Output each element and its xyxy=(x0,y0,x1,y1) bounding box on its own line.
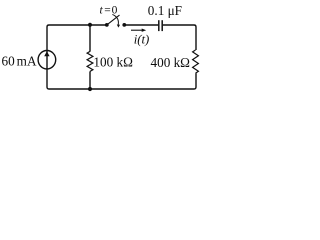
svg-text:400 kΩ: 400 kΩ xyxy=(151,55,191,70)
svg-text:0: 0 xyxy=(112,5,118,17)
svg-text:60 mA: 60 mA xyxy=(2,53,37,68)
svg-text:100 kΩ: 100 kΩ xyxy=(93,55,133,70)
svg-text:0.1 μF: 0.1 μF xyxy=(148,3,182,18)
svg-text:=: = xyxy=(104,5,111,17)
svg-text:i(t): i(t) xyxy=(134,33,150,47)
svg-text:t: t xyxy=(100,5,104,17)
